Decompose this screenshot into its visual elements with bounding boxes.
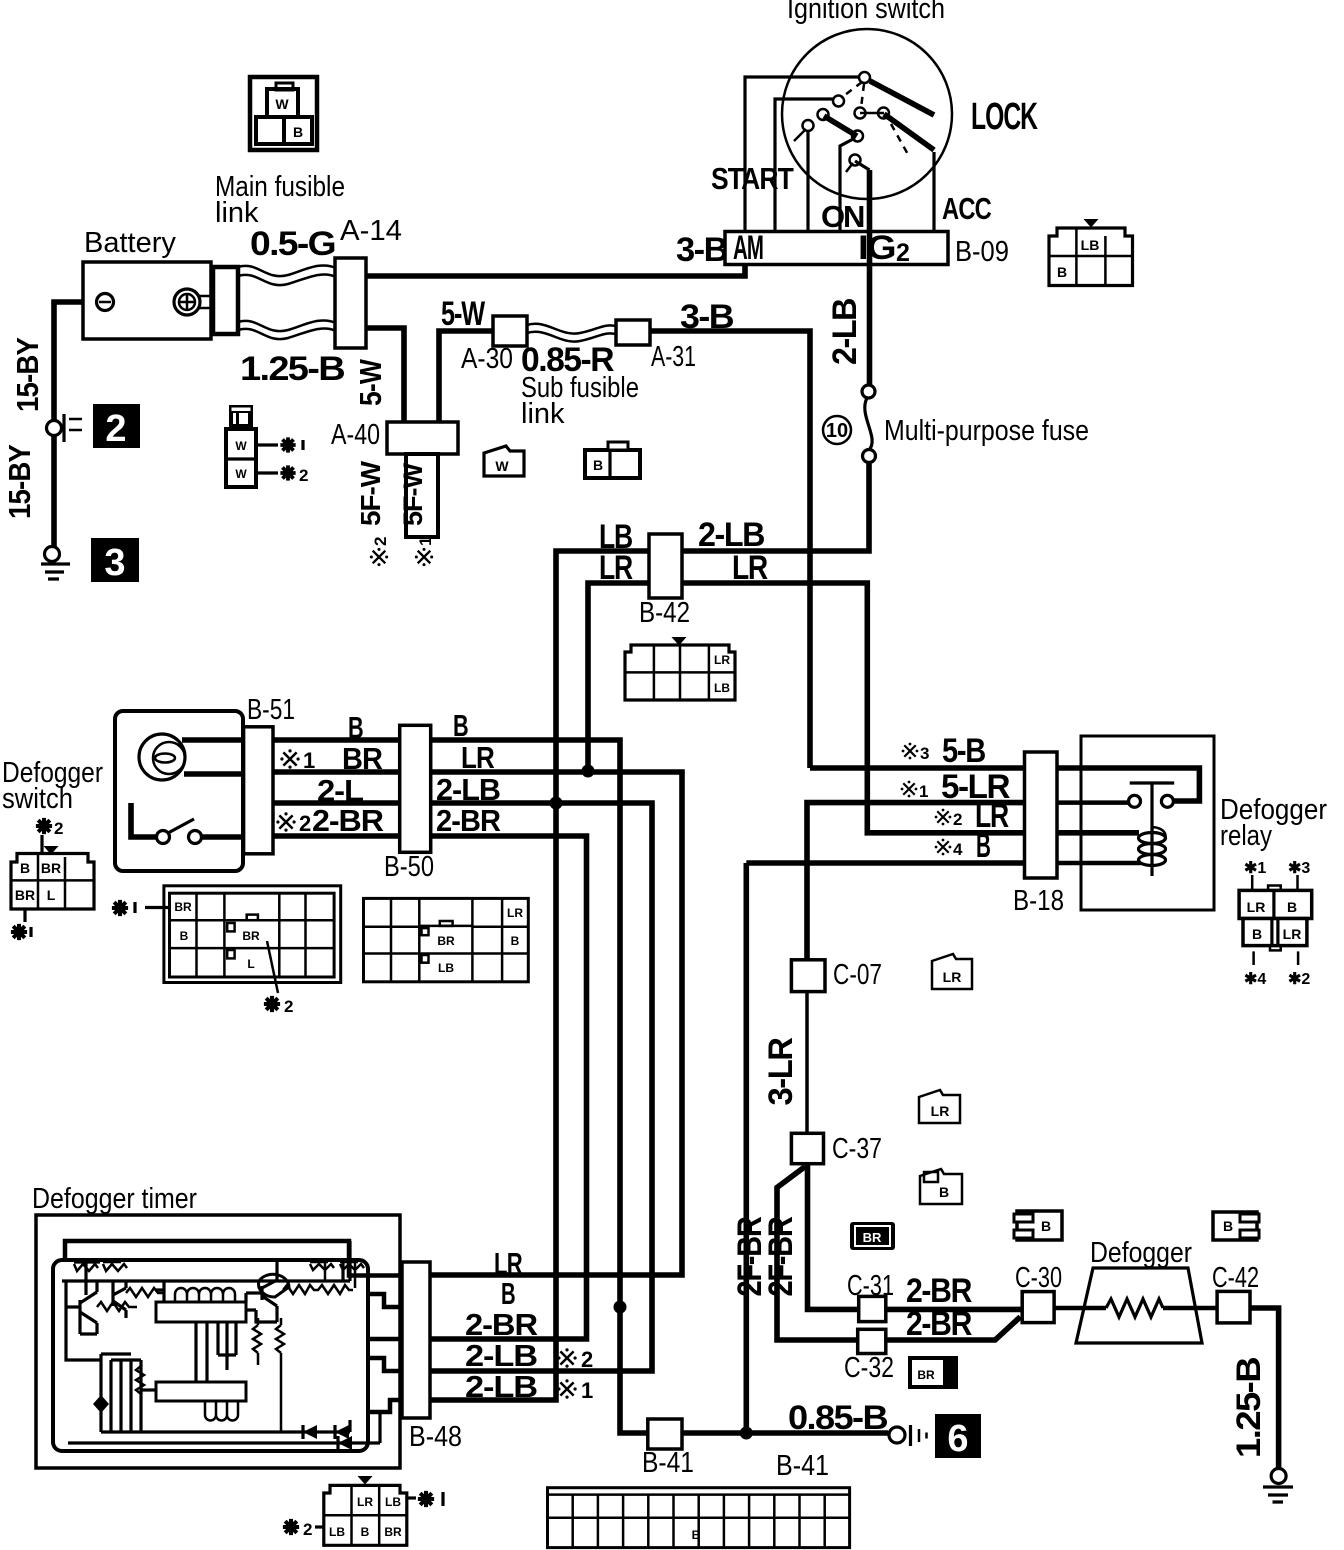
connector B-50 <box>400 725 431 852</box>
timer right resistor pair 2 <box>340 1262 364 1288</box>
timer transistor Q2 <box>113 1281 126 1310</box>
svg-text:LR: LR <box>461 740 495 775</box>
B plug icon (right notches) <box>1213 1212 1259 1240</box>
svg-text:W: W <box>235 439 247 453</box>
svg-text:START: START <box>711 161 794 196</box>
connector C-37 <box>791 1133 823 1163</box>
svg-text:1.25-B: 1.25-B <box>1230 1357 1268 1458</box>
svg-text:LR: LR <box>732 549 768 587</box>
ground 6 symbol <box>889 1425 927 1446</box>
svg-text:LOCK: LOCK <box>971 96 1038 138</box>
svg-text:B-09: B-09 <box>955 236 1009 268</box>
ground symbol (1.25-B) <box>1263 1469 1293 1503</box>
star 1 marker near A-40 icon <box>280 437 295 452</box>
ref mark 3 + label 5-B <box>902 743 919 760</box>
svg-text:B: B <box>180 929 189 943</box>
svg-text:C-31: C-31 <box>847 1270 894 1302</box>
battery terminal bar <box>213 267 238 334</box>
svg-text:LR: LR <box>1247 899 1266 915</box>
svg-text:W: W <box>235 467 247 481</box>
BR black icon <box>850 1222 895 1250</box>
svg-text:C-42: C-42 <box>1212 1262 1259 1294</box>
timer row B stub <box>368 1294 402 1307</box>
connector B-48 <box>402 1262 430 1418</box>
wire ref1 5-LR row into B-18 and down to C-07 <box>807 803 1025 960</box>
relay pin grid <box>1239 860 1312 988</box>
switch lamp wires <box>182 740 243 774</box>
svg-text:1: 1 <box>303 748 315 773</box>
ignition terminal center <box>855 108 866 119</box>
svg-text:B: B <box>453 708 468 743</box>
wire row 2-BR: B-51 to B-50 to B-48 2-BR row <box>243 833 400 839</box>
ref mark 1 + label BR (row2) <box>280 749 299 768</box>
timer IC1 top pins <box>175 1294 235 1302</box>
svg-text:N: N <box>843 199 864 234</box>
svg-text:2: 2 <box>896 239 910 267</box>
svg-text:relay: relay <box>1220 820 1272 852</box>
BR white icon <box>910 1358 956 1387</box>
svg-text:BR: BR <box>863 1230 882 1245</box>
svg-text:C-32: C-32 <box>844 1352 894 1384</box>
svg-text:B: B <box>293 124 303 140</box>
wire ref4 B row into B-18, down to 0.85-B <box>746 863 1024 1433</box>
svg-text:BR: BR <box>437 934 455 948</box>
connector C-07 <box>791 960 825 992</box>
svg-text:BR: BR <box>41 860 61 876</box>
wire 5-W: A-40 up to A-30 <box>439 331 495 425</box>
B-42 pin grid <box>625 637 735 700</box>
svg-text:B: B <box>1252 926 1262 942</box>
svg-text:5F-W: 5F-W <box>398 462 428 526</box>
star 2 marker (B-48 grid) <box>283 1519 299 1535</box>
svg-text:1: 1 <box>919 782 928 801</box>
svg-text:BR: BR <box>174 900 192 914</box>
B-09 terminal box AM/IG2 <box>725 232 948 265</box>
svg-text:LR: LR <box>1283 926 1302 942</box>
svg-text:LB: LB <box>1081 237 1100 253</box>
timer inner board box <box>53 1260 368 1451</box>
svg-text:IG: IG <box>858 229 895 267</box>
svg-text:B: B <box>939 1184 949 1200</box>
svg-text:10: 10 <box>826 420 848 442</box>
svg-text:LR: LR <box>714 653 730 667</box>
wire: battery negative to ground lead 15-BY <box>54 302 105 421</box>
ground marker box 6 <box>935 1414 981 1458</box>
svg-text:5-W: 5-W <box>441 295 486 333</box>
connector C-42 <box>1217 1291 1250 1323</box>
B-41 pin grid <box>548 1488 850 1548</box>
timer row ref1 stub <box>368 1400 402 1412</box>
svg-text:A-40: A-40 <box>331 419 380 451</box>
timer left-IC2 wire <box>141 1388 156 1391</box>
timer transistor Q3 <box>259 1274 289 1297</box>
timer row ref2 stub <box>368 1358 402 1371</box>
wire 2F-BR right branch: C-37 to C-31 <box>808 1164 859 1310</box>
timer row 2-BR stub <box>368 1337 402 1342</box>
svg-text:B: B <box>976 827 991 865</box>
svg-text:✱1: ✱1 <box>1244 860 1266 877</box>
svg-text:LB: LB <box>385 1495 401 1509</box>
circled 10 <box>823 416 851 444</box>
ignition wire ON <box>806 130 809 232</box>
svg-text:link: link <box>521 398 565 430</box>
svg-text:B-48: B-48 <box>409 1421 462 1453</box>
svg-text:switch: switch <box>2 783 73 815</box>
svg-text:B-41: B-41 <box>642 1447 694 1479</box>
svg-text:BR: BR <box>342 741 383 776</box>
svg-text:1: 1 <box>416 537 435 546</box>
timer diode D1 (diamond) <box>93 1395 109 1413</box>
W connector house icon <box>484 446 524 476</box>
svg-text:Ignition switch: Ignition switch <box>787 0 945 25</box>
svg-text:2-LB: 2-LB <box>465 1369 537 1404</box>
svg-text:0.5-G: 0.5-G <box>250 225 335 263</box>
svg-text:B-18: B-18 <box>1013 885 1064 917</box>
wire 3-LR: C-07 down to C-37 <box>805 992 809 1134</box>
svg-text:ACC: ACC <box>942 191 991 226</box>
ignition wire contact b <box>775 99 834 232</box>
svg-text:B: B <box>348 710 363 745</box>
svg-text:2: 2 <box>105 408 126 450</box>
svg-text:2: 2 <box>299 811 311 836</box>
wire row LR: B-51 to B-50 to B-48 LR row <box>243 769 400 775</box>
svg-text:3-LR: 3-LR <box>762 1038 800 1106</box>
svg-text:W: W <box>495 458 509 474</box>
svg-text:2: 2 <box>284 997 293 1016</box>
svg-text:3: 3 <box>104 542 125 584</box>
timer right verticals <box>343 1241 350 1281</box>
timer resistor R1 <box>97 1302 137 1311</box>
timer resistor R3 chain right of Q3 <box>283 1285 353 1294</box>
B-51 pin grid (18 pin) <box>164 886 341 983</box>
wire LB: B-42 left down to B-48 ref1 row <box>430 551 649 1400</box>
B-50 pin grid <box>364 898 529 981</box>
ref mark 1 + label 5-LR <box>901 781 918 798</box>
connector A-40 <box>387 422 458 454</box>
wire 2F-BR left branch: C-37 to C-32 <box>777 1167 856 1340</box>
wire LR: B-42 right to B-18 (ref2 LR) <box>682 583 1025 833</box>
svg-text:2-BR: 2-BR <box>312 803 384 838</box>
B plug icon (left notches) <box>1014 1211 1062 1240</box>
svg-text:B: B <box>692 1528 701 1542</box>
ignition switch circle <box>782 29 952 199</box>
relay coil feed LR <box>1057 830 1139 836</box>
LR house icon lower <box>919 1090 960 1123</box>
switch contacts and blade <box>131 803 156 837</box>
ignition wire AM <box>745 77 860 232</box>
timer mid resistors below Q3 <box>253 1318 261 1365</box>
timer right resistor pair 1 <box>310 1262 334 1281</box>
star 1 marker (B-48 grid) <box>407 1496 416 1499</box>
svg-text:2-LB: 2-LB <box>436 772 500 807</box>
LR house icon upper <box>932 954 972 989</box>
svg-text:2: 2 <box>371 537 390 546</box>
svg-text:B: B <box>1223 1218 1233 1234</box>
wire 2-BR: C-31 to C-30 <box>886 1307 1022 1313</box>
svg-text:B: B <box>1057 264 1067 280</box>
relay coil <box>1139 827 1166 876</box>
svg-text:1.25-B: 1.25-B <box>240 350 345 388</box>
svg-text:2F-BR: 2F-BR <box>762 1217 800 1297</box>
defogger switch pin grid <box>11 846 94 909</box>
timer left lower vertical cluster <box>101 1354 141 1432</box>
svg-text:5-B: 5-B <box>942 732 986 770</box>
junction dot B row at B-48 <box>614 1301 627 1314</box>
B-48 pin grid <box>324 1476 407 1545</box>
connector A-31 <box>616 320 650 345</box>
timer Q3 base link to IC1 <box>246 1310 277 1322</box>
star 1 marker (B-51 grid) <box>112 900 128 916</box>
connector B-41 <box>648 1419 682 1449</box>
svg-text:B: B <box>501 1276 515 1311</box>
fuse holder icon near A-40 <box>229 405 253 429</box>
connector C-30 <box>1022 1292 1054 1323</box>
sub fusible link 0.85-R (wavy) <box>527 324 618 334</box>
relay armature bar <box>1130 783 1175 831</box>
svg-text:BR: BR <box>384 1525 402 1539</box>
svg-text:2: 2 <box>953 810 962 829</box>
connector B-42 <box>649 534 682 598</box>
svg-text:4: 4 <box>953 840 963 859</box>
svg-text:B: B <box>20 860 30 876</box>
svg-text:6: 6 <box>947 1418 968 1460</box>
B house icon <box>920 1169 962 1204</box>
ignition heavy arm ACC <box>884 114 934 150</box>
connector C-31 <box>859 1296 886 1321</box>
svg-text:2-BR: 2-BR <box>465 1307 538 1342</box>
wire through defogger <box>1054 1306 1106 1311</box>
ignition wire IG2 (through box) <box>867 170 873 385</box>
connector A-30 <box>493 316 527 346</box>
svg-text:Defogger: Defogger <box>1090 1237 1192 1269</box>
svg-text:B-51: B-51 <box>247 694 295 726</box>
B connector plug icon <box>585 442 640 478</box>
svg-text:B-50: B-50 <box>384 851 434 883</box>
svg-text:3-B: 3-B <box>676 231 728 269</box>
svg-text:15-BY: 15-BY <box>2 444 37 519</box>
svg-text:B-42: B-42 <box>639 597 690 629</box>
ignition terminal c <box>818 109 829 120</box>
ref mark 1 below A-40 <box>415 537 435 567</box>
connector B-18 <box>1025 752 1058 878</box>
ignition contact tails <box>794 129 806 141</box>
svg-text:✱2: ✱2 <box>1288 971 1310 988</box>
ground marker box 2 <box>93 404 140 448</box>
ref mark 2 + label LR <box>935 809 952 826</box>
svg-text:2-LB: 2-LB <box>826 298 864 365</box>
ignition terminal ON <box>803 120 814 131</box>
connector A-14 <box>335 258 366 348</box>
timer top bus wire <box>65 1241 402 1276</box>
wire 0.85-B to ground 6 <box>682 1430 888 1436</box>
svg-text:15-BY: 15-BY <box>10 337 45 412</box>
timer transistor Q1 <box>74 1262 100 1295</box>
svg-text:A-31: A-31 <box>651 341 696 373</box>
svg-text:C-07: C-07 <box>833 959 882 991</box>
star 1 marker (defogger switch) <box>23 909 26 922</box>
star 2 marker (B-51 grid) <box>267 941 278 993</box>
wire LR: B-42 left down to LR row <box>588 583 649 771</box>
svg-text:BR: BR <box>917 1368 935 1382</box>
ref mark 4 + label B <box>935 839 952 856</box>
timer IC2 bottom pins <box>205 1401 238 1415</box>
svg-text:2: 2 <box>581 1347 593 1372</box>
svg-text:B-41: B-41 <box>776 1450 829 1482</box>
svg-text:3: 3 <box>920 744 929 763</box>
svg-text:C-37: C-37 <box>832 1133 882 1165</box>
svg-text:Defogger timer: Defogger timer <box>32 1183 197 1215</box>
connector C-32 <box>858 1329 886 1353</box>
ignition wire contact d <box>840 138 855 232</box>
svg-text:1: 1 <box>581 1378 593 1403</box>
ignition dashed wiper lines <box>841 82 862 98</box>
svg-text:LB: LB <box>714 681 730 695</box>
svg-text:3-B: 3-B <box>680 298 734 336</box>
wire 2-BR: C-32 to C-30 <box>886 1317 1021 1340</box>
wire 2-LB: fuse down to B-42 <box>682 462 869 551</box>
svg-text:2: 2 <box>299 466 308 485</box>
star 2 marker (defogger switch) <box>36 818 52 834</box>
wire ref3 5-B row into B-18 <box>810 765 1025 771</box>
ground marker box 3 <box>91 538 139 582</box>
relay 5-B feed to contact <box>1057 768 1199 801</box>
relay contact right <box>1161 795 1173 807</box>
multi-purpose fuse <box>862 385 876 463</box>
svg-text:LB: LB <box>329 1525 345 1539</box>
junction dot LB/2-LB row <box>550 797 563 810</box>
svg-text:✱4: ✱4 <box>1244 971 1266 988</box>
svg-text:5F-W: 5F-W <box>355 460 386 526</box>
star 2 marker near A-40 icon <box>280 465 295 480</box>
timer center verticals IC1-IC2 <box>196 1322 236 1382</box>
junction dot LR row <box>582 765 595 778</box>
wire 3-B: A-31 to B-18 column <box>648 331 810 768</box>
svg-text:LB: LB <box>438 961 454 975</box>
ignition contact link <box>860 112 884 115</box>
svg-text:✱3: ✱3 <box>1288 860 1310 877</box>
wire row 2-L/2-LB: B-51 to B-50 to B-48 ref2 row <box>243 800 400 806</box>
connector icon (top-left, W/B pin view) <box>250 77 317 150</box>
ignition terminal d <box>852 131 863 142</box>
svg-text:A-14: A-14 <box>340 215 402 247</box>
wire 3-B: A-14 to AM <box>360 264 745 276</box>
ignition heavy contact arm LOCK <box>870 81 934 115</box>
connector icon with W pins near A-40 <box>226 429 278 487</box>
svg-text:5-W: 5-W <box>353 359 388 406</box>
svg-text:C-30: C-30 <box>1015 1262 1062 1294</box>
svg-text:B: B <box>593 457 603 473</box>
defogger switch box <box>115 711 243 871</box>
wire 1.25-B to ground <box>1250 1308 1279 1468</box>
junction dot 0.85-B <box>740 1427 753 1440</box>
svg-text:2-BR: 2-BR <box>436 803 501 838</box>
ignition wire ACC <box>932 152 935 232</box>
svg-text:BR: BR <box>242 929 260 943</box>
svg-text:2: 2 <box>303 1520 312 1539</box>
ground 2 symbol <box>47 414 83 442</box>
defogger timer outer box <box>36 1215 400 1468</box>
svg-text:Battery: Battery <box>84 227 176 259</box>
defogger heated grid (trapezoid with resistor) <box>1076 1268 1202 1343</box>
svg-text:L: L <box>47 887 56 903</box>
svg-text:2-BR: 2-BR <box>906 1305 972 1343</box>
timer IC2 block <box>156 1382 246 1401</box>
svg-text:W: W <box>275 96 289 112</box>
wire: A-14 to A-40 (5-W) <box>360 328 404 425</box>
svg-text:B: B <box>1041 1218 1051 1234</box>
ignition heavy arm left <box>824 116 857 136</box>
svg-text:Multi-purpose fuse: Multi-purpose fuse <box>884 415 1089 447</box>
timer IC1 block <box>156 1302 246 1322</box>
battery <box>83 262 213 339</box>
timer resistor R4 <box>136 1366 144 1400</box>
ref mark 2 below A-40 <box>370 537 390 567</box>
main fusible link 0.5-G (wavy) <box>238 265 336 276</box>
svg-text:LR: LR <box>507 906 523 920</box>
svg-text:B: B <box>361 1525 370 1539</box>
ignition terminal IG2 <box>850 155 861 166</box>
relay contact left <box>1129 795 1141 807</box>
svg-text:BR: BR <box>15 887 35 903</box>
svg-text:LR: LR <box>943 969 962 985</box>
lamp (illumination) <box>139 734 185 780</box>
timer bottom bus 2 with diode <box>68 1412 380 1443</box>
svg-text:0.85-B: 0.85-B <box>788 1399 888 1437</box>
timer resistor R2 <box>126 1288 164 1297</box>
svg-text:L: L <box>247 957 254 971</box>
timer internal top rail <box>62 1279 350 1282</box>
svg-text:2-LB: 2-LB <box>465 1338 537 1373</box>
svg-text:B: B <box>1287 899 1297 915</box>
relay 5-LR feed to contact <box>1057 800 1128 805</box>
ignition pivot terminal <box>859 72 870 83</box>
svg-text:LR: LR <box>599 549 633 587</box>
defogger relay box <box>1081 736 1214 910</box>
svg-text:A-30: A-30 <box>461 343 513 375</box>
svg-text:B: B <box>511 934 520 948</box>
ignition terminal b <box>833 96 844 107</box>
svg-text:2: 2 <box>54 819 63 838</box>
svg-text:LR: LR <box>357 1495 373 1509</box>
relay coil feed B <box>1057 861 1141 866</box>
svg-text:AM: AM <box>733 229 763 267</box>
ref mark 2 + label 2-BR (row4) <box>276 812 295 831</box>
terminal 5F-W pin box below A-40 <box>406 454 438 537</box>
svg-text:LR: LR <box>931 1103 950 1119</box>
connector B-51 <box>244 727 273 854</box>
timer bottom bus 1 with diodes <box>101 1420 350 1432</box>
timer left drop wires <box>66 1281 101 1360</box>
main fusible link 1.25-B (wavy) <box>238 320 336 331</box>
ignition terminal ACC <box>878 108 889 119</box>
wire row B: switch to B-50 to B-48/B-41 <box>243 737 400 743</box>
B-09 pin grid <box>1049 219 1133 286</box>
ground 3 symbol <box>41 547 70 580</box>
